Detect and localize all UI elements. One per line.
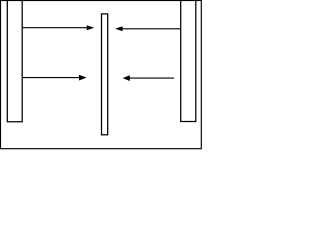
arrow bottom-left shaft xyxy=(22,77,79,79)
center plate xyxy=(102,14,108,135)
arrow top-right head xyxy=(115,26,122,31)
arrow bottom-right head xyxy=(123,75,130,81)
border frame xyxy=(1,1,202,149)
arrow bottom-right shaft xyxy=(130,77,175,79)
arrow top-left head xyxy=(87,25,95,30)
arrow top-right shaft xyxy=(122,28,181,30)
arrow top-left shaft xyxy=(22,27,87,29)
right plate xyxy=(181,0,196,122)
arrow bottom-left head xyxy=(79,75,87,81)
left plate xyxy=(7,0,22,122)
